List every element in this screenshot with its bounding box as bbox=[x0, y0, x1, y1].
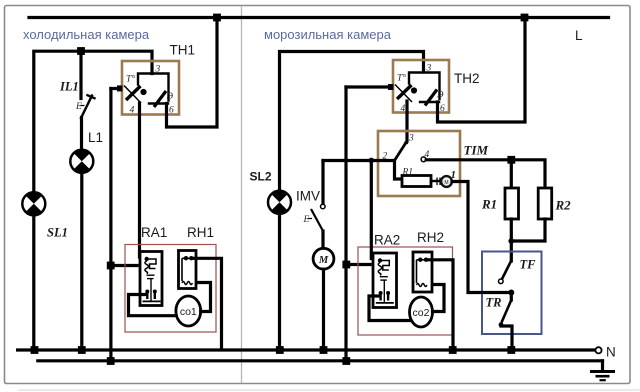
section divider bbox=[241, 7, 243, 384]
svg-text:TR: TR bbox=[486, 296, 502, 310]
svg-text:L1: L1 bbox=[88, 130, 103, 145]
resistor R1 (timer) bbox=[402, 176, 431, 187]
wire node into TF bbox=[510, 241, 513, 261]
timer TIM box bbox=[378, 131, 460, 196]
svg-text:SL2: SL2 bbox=[250, 170, 272, 184]
svg-text:TF: TF bbox=[520, 258, 537, 272]
svg-text:TIM: TIM bbox=[464, 143, 489, 158]
wire RA2 to co2 bbox=[369, 296, 411, 321]
svg-text:3: 3 bbox=[408, 134, 414, 144]
wire branch to RA1 bbox=[111, 264, 137, 267]
TH1 contact blade bbox=[154, 91, 166, 107]
lamp SL1 bbox=[22, 192, 45, 215]
wire: freezer feeder bbox=[280, 52, 424, 192]
node dot R1/R2 bbox=[508, 238, 514, 244]
svg-text:co1: co1 bbox=[180, 306, 197, 318]
svg-text:T°: T° bbox=[397, 73, 406, 84]
lamp L1 bbox=[70, 150, 93, 173]
wire down to R1 bbox=[510, 160, 513, 189]
wire TH2 pin6 to bus L bbox=[438, 19, 526, 122]
resistor R2 bbox=[538, 188, 552, 219]
wire SL1 to bus N bbox=[32, 216, 35, 351]
wire SL2 to bus N bbox=[278, 214, 281, 350]
svg-text:R1: R1 bbox=[402, 168, 414, 178]
ground bbox=[601, 361, 604, 371]
svg-text:IL1: IL1 bbox=[59, 80, 79, 94]
motor co2 bbox=[410, 297, 433, 327]
svg-text:TH1: TH1 bbox=[170, 43, 196, 58]
junction SL1/bus1 bbox=[31, 346, 39, 354]
svg-text:T°: T° bbox=[126, 74, 135, 85]
junction R1 branch bbox=[507, 156, 515, 164]
wire TH1 pin4 to RA1 bbox=[138, 103, 141, 257]
TH2 sensor symbol bbox=[397, 85, 412, 99]
TH1 sensor symbol bbox=[126, 86, 141, 100]
svg-text:RA1: RA1 bbox=[141, 225, 167, 240]
svg-text:Э: Э bbox=[167, 92, 173, 102]
wire TR to bus N bbox=[501, 326, 512, 350]
wire branch to RA2 bbox=[346, 263, 370, 266]
switch IMV contact bbox=[321, 204, 326, 209]
terminal N bbox=[595, 347, 601, 353]
TH2 T-bar bbox=[409, 73, 440, 100]
junction IL1 branch bbox=[77, 47, 85, 55]
wire R1 to motor bbox=[431, 180, 441, 182]
junction dot RA2 feed bbox=[368, 158, 374, 164]
wire: fridge feeder horizontal bbox=[34, 51, 152, 192]
switch IMV blade bbox=[311, 209, 323, 231]
junction on bus2 bbox=[107, 357, 115, 365]
svg-text:E: E bbox=[303, 215, 310, 225]
bus earth (line 2) bbox=[38, 359, 603, 362]
svg-text:TH2: TH2 bbox=[454, 71, 480, 86]
wire TH2 pin4 to TIM pin3 bbox=[405, 101, 408, 141]
wire TIM pin2 feed bbox=[323, 161, 402, 180]
svg-text:IMV: IMV bbox=[296, 189, 320, 204]
relay RH1 bbox=[179, 251, 197, 289]
svg-text:морозильная камера: морозильная камера bbox=[264, 27, 392, 42]
junction RA2 branch bbox=[342, 261, 350, 269]
TIM pin 4 contact bbox=[421, 157, 426, 162]
thermostat TH1 box bbox=[122, 61, 179, 115]
junction RA1 branch bbox=[107, 262, 115, 270]
wire R1 bottom to node bbox=[510, 219, 513, 241]
wire: top bus L bbox=[29, 16, 609, 19]
wire fan motor to bus N bbox=[322, 269, 325, 350]
motor co1 bbox=[176, 296, 201, 326]
wire TIM pin2 down to IMV switch bbox=[321, 161, 324, 205]
TH1 T-bar bbox=[138, 74, 169, 101]
svg-text:6: 6 bbox=[169, 106, 174, 116]
junction on bus (freezer branch) bbox=[521, 14, 529, 22]
svg-text:R2: R2 bbox=[555, 198, 572, 213]
protective box freezer (red) bbox=[358, 247, 453, 335]
timer motor M1 bbox=[441, 176, 452, 187]
wire sensor line down to bus2 bbox=[344, 87, 347, 361]
protective box fridge (red) bbox=[125, 245, 216, 333]
svg-text:Э: Э bbox=[437, 91, 443, 101]
switch TR blade bbox=[510, 293, 513, 301]
wire RA2 feed from TIM pin2 junction bbox=[370, 161, 373, 259]
relay RA1 bbox=[140, 252, 162, 306]
svg-text:RH1: RH1 bbox=[187, 225, 214, 240]
switch TF blade bbox=[502, 261, 511, 280]
bus N (line 1) bbox=[18, 348, 595, 351]
relay RH2 bbox=[413, 252, 432, 292]
wire TH1 sensor feed bbox=[111, 87, 120, 90]
fan motor M bbox=[313, 248, 334, 269]
wire sensor line down to bus2 bbox=[109, 89, 112, 362]
wire IMV switch to fan motor bbox=[321, 231, 324, 249]
svg-text:E: E bbox=[75, 102, 82, 112]
lamp SL2 bbox=[268, 191, 291, 214]
switch IL1 bbox=[79, 51, 82, 99]
svg-text:RH2: RH2 bbox=[417, 230, 444, 245]
svg-text:L: L bbox=[575, 28, 583, 43]
svg-text:RA2: RA2 bbox=[374, 233, 400, 248]
TH2 contact blade bbox=[425, 90, 437, 106]
junction on bus (fridge branch) bbox=[213, 14, 221, 22]
wire TH2 sensor feed bbox=[346, 85, 391, 88]
relay RA2 bbox=[373, 253, 397, 308]
TH2 bottom contact bar bbox=[420, 101, 439, 103]
thermal switches box (blue) bbox=[482, 252, 542, 335]
TH1 bottom contact bar bbox=[149, 102, 168, 104]
resistor R1 (defrost) bbox=[505, 188, 519, 219]
wire co2 to RH2 heater bbox=[430, 285, 444, 312]
svg-text:M: M bbox=[318, 255, 329, 266]
svg-text:холодильная камера: холодильная камера bbox=[23, 27, 150, 42]
wire TH1 pin6 to bus L bbox=[167, 19, 218, 127]
svg-text:SL1: SL1 bbox=[47, 226, 68, 240]
wire R2 bottom to node bbox=[511, 219, 545, 241]
svg-text:M: M bbox=[444, 180, 448, 186]
wire TIM pin1 to TF/TR node bbox=[452, 182, 511, 293]
wire RH1 to bus N bbox=[193, 258, 222, 349]
svg-text:4: 4 bbox=[130, 106, 135, 116]
svg-text:4: 4 bbox=[401, 104, 406, 114]
junction L1/bus1 bbox=[78, 346, 86, 354]
junction on bus2 bbox=[342, 357, 350, 365]
junction SL2/bus1 bbox=[276, 346, 284, 354]
thermostat TH2 box bbox=[393, 60, 449, 113]
svg-text:1: 1 bbox=[451, 169, 457, 181]
wire RA1 to co1 bbox=[129, 295, 177, 316]
wire IL1 to L1 bbox=[80, 118, 83, 151]
wire co1 to RH1 heater bbox=[194, 283, 211, 312]
svg-text:R1: R1 bbox=[481, 197, 497, 212]
svg-text:co2: co2 bbox=[413, 307, 430, 319]
node dot TF/TR bbox=[508, 290, 514, 296]
TIM switch blade bbox=[395, 143, 407, 161]
svg-text:6: 6 bbox=[440, 104, 445, 114]
wire RH2 to bus N bbox=[428, 260, 453, 350]
wire L1 to bus N bbox=[80, 173, 83, 350]
svg-text:N: N bbox=[606, 345, 616, 360]
wire TIM pin4 to defrost resistors bbox=[426, 160, 545, 189]
